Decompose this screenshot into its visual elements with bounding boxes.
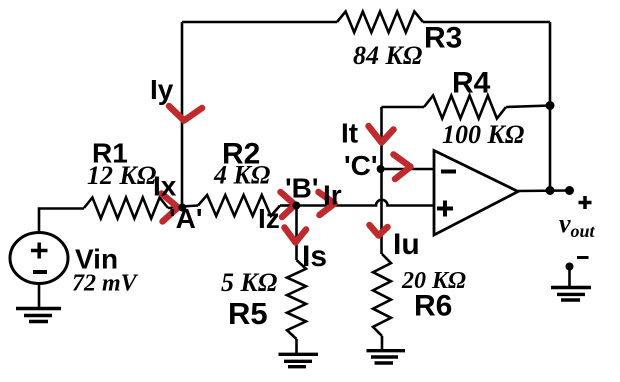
ground R6	[367, 351, 406, 363]
current arrow Iu	[370, 225, 388, 236]
junction output	[546, 186, 555, 195]
junction R4-right	[546, 101, 555, 110]
wire A-R2	[182, 206, 198, 207]
svg-text:Iu: Iu	[393, 228, 420, 261]
svg-text:Is: Is	[302, 240, 327, 273]
svg-text:Ix: Ix	[153, 171, 177, 202]
terminal vout	[565, 186, 574, 195]
minus inside Vin	[33, 270, 47, 274]
wire R4-left	[382, 106, 425, 109]
node A	[178, 204, 186, 212]
wire B-right with hop	[296, 200, 434, 206]
plus vout	[579, 196, 592, 209]
svg-text:R5: R5	[228, 296, 268, 331]
svg-text:'B': 'B'	[285, 173, 319, 204]
resistor R6	[373, 254, 391, 336]
svg-text:84 KΩ: 84 KΩ	[353, 41, 422, 70]
svg-text:5 KΩ: 5 KΩ	[221, 268, 277, 297]
current arrow Iz	[281, 192, 296, 217]
ground Vin	[16, 309, 61, 322]
current arrow Ir	[319, 192, 335, 215]
node C	[377, 165, 385, 173]
resistor R5	[287, 260, 306, 339]
node B	[292, 202, 300, 210]
svg-text:72 mV: 72 mV	[72, 271, 139, 297]
wire output	[518, 189, 570, 192]
current arrow Is	[285, 228, 307, 243]
resistor R1	[84, 198, 168, 219]
current arrow Iy	[169, 106, 202, 121]
svg-text:12 KΩ: 12 KΩ	[87, 161, 156, 190]
current arrow Ic	[394, 155, 411, 180]
minus opamp input	[441, 170, 456, 174]
ground R5	[279, 354, 319, 366]
wire right-vertical	[549, 22, 552, 191]
wire R6-gnd	[381, 336, 384, 351]
wire C-minus	[382, 168, 435, 171]
source Vin	[10, 233, 68, 284]
wire R5-gnd	[295, 339, 298, 354]
svg-text:'A': 'A'	[169, 203, 203, 234]
plus opamp input	[437, 201, 453, 217]
op-amp U1	[434, 151, 518, 236]
ground vout	[551, 288, 591, 301]
wire R2-B	[280, 204, 296, 207]
wire B-down	[295, 206, 298, 261]
resistor R2	[198, 195, 280, 216]
svg-text:100 KΩ: 100 KΩ	[442, 120, 524, 149]
wire vin-gnd	[38, 283, 41, 308]
wire vin-top	[39, 209, 84, 234]
wire top-right	[423, 21, 550, 24]
svg-text:4 KΩ: 4 KΩ	[213, 161, 270, 190]
svg-text:It: It	[341, 118, 358, 149]
wire R1-A	[168, 207, 182, 208]
svg-text:Ir: Ir	[323, 180, 342, 211]
wire C-vertical	[380, 107, 383, 254]
wire vout-gnd-stub	[568, 268, 571, 288]
terminal gnd	[566, 263, 574, 271]
svg-text:Iy: Iy	[150, 74, 174, 105]
current arrow Ix	[162, 194, 179, 222]
svg-text:Iz: Iz	[258, 203, 280, 234]
svg-text:'C': 'C'	[344, 150, 378, 181]
svg-text:R4: R4	[452, 67, 491, 100]
current arrow It	[369, 126, 394, 143]
plus inside Vin	[31, 243, 48, 259]
minus vout-gnd	[577, 256, 589, 259]
svg-text:R6: R6	[414, 290, 452, 323]
wire A-up	[181, 22, 184, 207]
wire top-left	[182, 21, 337, 24]
wire R4-right	[506, 106, 550, 108]
resistor R3	[337, 12, 423, 33]
svg-text:R3: R3	[424, 22, 462, 55]
resistor R4	[424, 96, 506, 119]
